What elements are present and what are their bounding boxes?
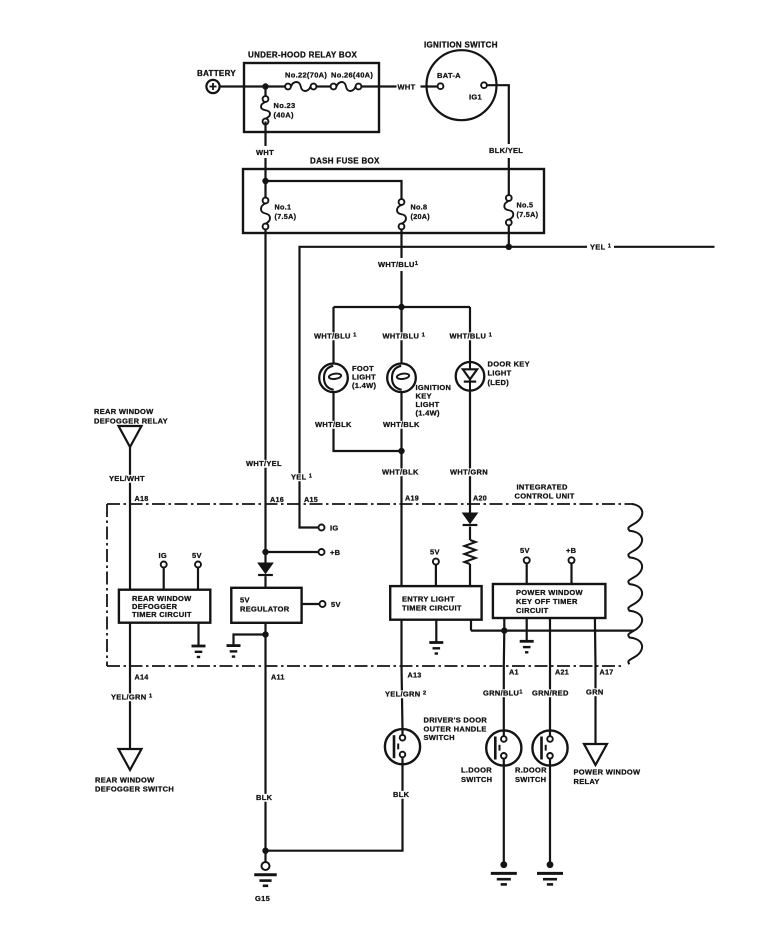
wire +B junction to terminal	[266, 551, 319, 553]
integrated control unit top dashed border	[107, 503, 633, 505]
node ground dot R door	[547, 861, 554, 868]
svg-text:IG1: IG1	[469, 93, 482, 102]
dash fuse box	[243, 169, 544, 233]
wire A14 to defogger switch	[129, 666, 131, 749]
wire junction to regulator ground	[234, 635, 266, 646]
driver's door outer handle switch	[385, 729, 420, 764]
svg-text:A1: A1	[509, 668, 519, 677]
svg-text:WHT/BLU 1: WHT/BLU 1	[450, 332, 493, 341]
svg-text:SWITCH: SWITCH	[424, 733, 455, 742]
wire YEL rail right segment	[614, 246, 715, 248]
wire label WHT/YEL	[244, 460, 281, 468]
ground below power window timer	[520, 640, 534, 643]
svg-text:WHT/BLU 1: WHT/BLU 1	[314, 332, 357, 341]
terminal IG1	[481, 82, 487, 88]
svg-text:BATTERY: BATTERY	[197, 69, 236, 78]
svg-text:WHT: WHT	[256, 148, 274, 157]
node junction battery/fuse No.23	[262, 83, 268, 89]
ground G15	[254, 873, 277, 876]
diode on A20 line	[463, 513, 478, 523]
svg-text:REGULATOR: REGULATOR	[240, 605, 290, 614]
svg-text:No.8: No.8	[411, 203, 428, 212]
node junction A1	[501, 627, 507, 633]
svg-text:POWER WINDOW: POWER WINDOW	[574, 768, 642, 777]
wire WHT to BAT-A terminal	[421, 85, 438, 87]
fuse No.8 (20A)	[399, 199, 405, 205]
wire junction down to fuse No.23	[264, 87, 266, 97]
wire A11 BLK down to G15	[264, 666, 266, 851]
wire WHT/BLK down to A19	[400, 451, 402, 586]
wire WHT from relay box to dash fuse box	[264, 122, 266, 147]
svg-text:WHT/BLK: WHT/BLK	[383, 420, 420, 429]
node junction fuse No.1 / No.8 feed	[262, 178, 268, 184]
svg-text:5V: 5V	[240, 596, 250, 605]
svg-text:R.DOOR: R.DOOR	[515, 766, 547, 775]
wire entry light box stub to bus	[470, 620, 472, 631]
ground below entry light timer	[429, 641, 443, 644]
ignition key light bulb	[387, 364, 416, 393]
integrated control unit bottom dashed border	[107, 665, 623, 667]
svg-text:No.5: No.5	[517, 201, 534, 210]
wire resistor to entry light box	[469, 564, 471, 586]
fuse No.5 (7.5A)	[506, 195, 512, 201]
rear window defogger timer circuit label	[132, 594, 192, 619]
IG terminal circle	[319, 525, 325, 531]
5V regulator label	[240, 596, 290, 614]
wire fuse No.8 down WHT/BLU	[400, 229, 402, 258]
svg-text:CIRCUIT: CIRCUIT	[516, 606, 549, 615]
svg-text:No.1: No.1	[275, 203, 292, 212]
fuse No.1 label	[275, 203, 297, 222]
G15 ground terminal circle	[262, 862, 270, 870]
svg-text:TIMER CIRCUIT: TIMER CIRCUIT	[402, 604, 462, 613]
IG terminal circle (defogger timer)	[161, 562, 167, 568]
left door switch label	[461, 766, 492, 784]
wire 5V terminal to defogger timer box	[197, 568, 199, 590]
wire junction to ground circle	[264, 851, 266, 862]
wire label WHT/GRN	[448, 468, 485, 476]
5V regulator box	[231, 588, 301, 623]
svg-text:(1.4W): (1.4W)	[416, 409, 441, 418]
rear window defogger switch label	[95, 776, 174, 794]
wire R door switch to ground	[549, 766, 551, 865]
wire regulator bottom to A11	[264, 623, 266, 666]
wire label WHT/BLU 1	[376, 261, 417, 269]
svg-text:(40A): (40A)	[274, 111, 294, 120]
svg-text:A11: A11	[271, 673, 285, 682]
wire relay box to ignition switch, WHT	[361, 85, 396, 87]
fuse No.22 (70A)	[285, 84, 291, 90]
ground below 5V regulator	[227, 644, 241, 647]
svg-text:BLK/YEL: BLK/YEL	[489, 146, 523, 155]
svg-text:DEFOGGER RELAY: DEFOGGER RELAY	[94, 417, 168, 426]
integrated control unit wavy right border	[628, 504, 642, 664]
wire 5V terminal to entry light box	[435, 565, 437, 587]
svg-text:No.22(70A): No.22(70A)	[285, 71, 327, 80]
fuse No.23 (40A)	[263, 96, 269, 102]
wire label WHT/BLU 1 (door key light)	[448, 332, 494, 340]
svg-text:REAR WINDOW: REAR WINDOW	[95, 776, 155, 785]
entry light timer circuit label	[402, 595, 462, 613]
wire label YEL 1 (A15 line)	[289, 473, 316, 481]
svg-text:BAT-A: BAT-A	[437, 71, 461, 80]
driver's door outer handle switch label	[424, 716, 488, 743]
svg-text:5V: 5V	[430, 548, 440, 557]
svg-text:(LED): (LED)	[488, 378, 510, 387]
svg-text:(7.5A): (7.5A)	[275, 212, 297, 221]
ignition key light label	[416, 383, 452, 418]
svg-text:A18: A18	[135, 494, 149, 503]
svg-text:GRN/RED: GRN/RED	[532, 689, 569, 698]
svg-text:SWITCH: SWITCH	[461, 775, 492, 784]
wire label WHT	[254, 149, 272, 157]
svg-text:A21: A21	[555, 668, 569, 677]
svg-text:WHT: WHT	[398, 82, 416, 91]
svg-text:A19: A19	[405, 494, 419, 503]
wire power window box to ground	[526, 618, 528, 641]
wire battery to under-hood relay box	[219, 85, 265, 87]
under-hood relay box	[244, 63, 379, 132]
node junction YEL rail	[506, 244, 512, 250]
svg-text:A20: A20	[473, 494, 487, 503]
fuse No.23 label	[274, 101, 296, 120]
wire junction to fuse No.1	[264, 181, 266, 198]
wire +B terminal to power window box	[570, 563, 572, 584]
svg-text:(7.5A): (7.5A)	[517, 210, 539, 219]
ground below R door switch	[537, 872, 563, 875]
5V terminal circle (defogger timer)	[195, 562, 201, 568]
left door switch	[486, 730, 521, 765]
svg-text:GRN/BLU1: GRN/BLU1	[483, 689, 523, 698]
integrated control unit label	[515, 483, 575, 501]
5V terminal circle (entry light)	[433, 559, 439, 565]
wire L door switch to ground	[503, 766, 505, 865]
wire label GRN/RED	[530, 689, 567, 697]
foot light bulb	[319, 364, 348, 393]
wire label GRN	[584, 688, 602, 696]
svg-text:DOOR KEY: DOOR KEY	[488, 360, 530, 369]
door key light label	[488, 360, 530, 388]
svg-text:CONTROL UNIT: CONTROL UNIT	[515, 492, 575, 501]
wire power window box stub to A17	[594, 618, 597, 666]
wire label GRN/BLU 1	[481, 689, 522, 697]
wire YEL rail left segment	[300, 247, 588, 460]
wire label WHT/BLU 1 (foot light)	[312, 332, 358, 340]
ground below L door switch	[491, 872, 517, 875]
node junction G15	[262, 848, 268, 854]
wire fuse No.5 down to YEL rail	[508, 225, 510, 246]
fuse No.26 (40A)	[331, 84, 337, 90]
rear window defogger relay connector triangle	[119, 426, 142, 447]
wire A14 defogger timer box down	[129, 623, 131, 666]
svg-text:LIGHT: LIGHT	[488, 369, 512, 378]
wire BLK/YEL into dash fuse box	[508, 158, 510, 195]
svg-text:UNDER-HOOD RELAY BOX: UNDER-HOOD RELAY BOX	[248, 51, 357, 60]
svg-text:WHT/GRN: WHT/GRN	[450, 468, 488, 477]
svg-text:WHT/BLK: WHT/BLK	[382, 468, 419, 477]
node ground dot L door	[500, 861, 507, 868]
svg-text:RELAY: RELAY	[574, 777, 600, 786]
ignition switch body	[427, 50, 497, 120]
fuse No.1 (7.5A)	[263, 198, 269, 204]
wire A15 to IG terminal	[300, 460, 319, 528]
+B terminal circle	[319, 549, 325, 555]
wire A13 entry light box down	[400, 620, 402, 666]
wire A1 GRN/BLU to L door switch	[503, 666, 505, 730]
fuse No.8 label	[411, 203, 431, 222]
node junction +B	[262, 549, 268, 555]
door key light LED	[456, 362, 485, 391]
resistor	[464, 540, 475, 564]
wire label WHT/BLK (foot light)	[313, 421, 350, 429]
entry light timer circuit box	[390, 586, 481, 620]
power window key off timer circuit label	[516, 588, 584, 615]
svg-text:INTEGRATED: INTEGRATED	[517, 483, 568, 492]
wire entry light box to ground	[435, 620, 437, 643]
wire label YEL/WHT	[107, 475, 144, 483]
rear window defogger timer circuit box	[119, 590, 210, 623]
wire power window box stub to A21	[549, 618, 551, 666]
svg-text:No.26(40A): No.26(40A)	[331, 71, 373, 80]
svg-text:(1.4W): (1.4W)	[352, 381, 377, 390]
wire power window box stub to A1 junction	[503, 618, 505, 631]
+B terminal circle (power window)	[569, 557, 575, 563]
wire defogger timer box to ground	[197, 623, 199, 646]
wire YEL/WHT from relay	[129, 447, 131, 590]
wire 5V terminal to power window box	[526, 563, 528, 584]
wire ignition key light lower	[400, 392, 402, 451]
svg-text:+B: +B	[566, 546, 577, 555]
svg-text:A15: A15	[304, 495, 318, 504]
right door switch label	[515, 766, 547, 784]
svg-text:5V: 5V	[520, 546, 530, 555]
svg-text:+B: +B	[330, 548, 341, 557]
svg-text:WHT/BLU 1: WHT/BLU 1	[383, 332, 426, 341]
5V terminal circle (power window)	[524, 557, 530, 563]
svg-text:A17: A17	[600, 668, 614, 677]
wire label WHT/BLK (ignition key light)	[381, 421, 418, 429]
wire A13 to driver's door switch	[402, 666, 403, 729]
svg-text:DEFOGGER SWITCH: DEFOGGER SWITCH	[95, 785, 174, 794]
power window relay label	[574, 768, 642, 787]
wire label BLK (driver's door)	[391, 791, 409, 799]
wire A1 junction down	[503, 631, 506, 666]
svg-text:WHT/YEL: WHT/YEL	[246, 459, 282, 468]
wire foot light branch upper	[332, 307, 334, 364]
svg-text:KEY OFF TIMER: KEY OFF TIMER	[516, 597, 578, 606]
wire junction to driver's door switch return	[266, 764, 403, 850]
svg-text:(20A): (20A)	[411, 212, 431, 221]
svg-text:A13: A13	[408, 671, 422, 680]
wire A17 GRN to power window relay	[594, 666, 596, 744]
wire door key light lower WHT/GRN	[469, 391, 471, 513]
svg-text:IG: IG	[330, 524, 339, 533]
svg-text:DRIVER'S DOOR: DRIVER'S DOOR	[424, 716, 488, 725]
terminal BAT-A	[438, 83, 444, 89]
svg-text:POWER WINDOW: POWER WINDOW	[516, 588, 584, 597]
rear window defogger switch connector triangle	[119, 749, 142, 770]
svg-text:GRN: GRN	[586, 688, 604, 697]
wire door key light branch upper	[469, 307, 471, 362]
svg-text:DASH FUSE BOX: DASH FUSE BOX	[310, 157, 380, 166]
svg-text:IGNITION SWITCH: IGNITION SWITCH	[424, 41, 498, 50]
svg-text:A14: A14	[135, 673, 149, 682]
wire WHT continue into dash fuse box	[264, 158, 266, 181]
wire internal bus to wavy border	[471, 629, 634, 631]
svg-text:YEL/GRN 1: YEL/GRN 1	[111, 693, 153, 702]
svg-text:YEL/WHT: YEL/WHT	[109, 474, 145, 483]
rear window defogger relay label	[94, 407, 168, 426]
power window relay connector triangle	[584, 744, 607, 765]
wire label WHT/BLU 1 (ignition key light)	[381, 332, 427, 340]
battery B+ terminal	[206, 80, 219, 93]
wire label BLK (A11)	[254, 794, 272, 802]
ground below defogger timer	[192, 645, 206, 648]
power window key off timer circuit box	[493, 584, 606, 618]
wire diode to regulator	[264, 576, 266, 588]
wire label YEL/GRN 2	[383, 690, 429, 698]
svg-text:TIMER CIRCUIT: TIMER CIRCUIT	[132, 610, 192, 619]
fuse No.5 label	[517, 201, 539, 220]
svg-text:BLK: BLK	[393, 790, 410, 799]
svg-text:IG: IG	[159, 551, 168, 560]
lamp bus wire	[334, 306, 471, 308]
node junction lamp bus	[398, 304, 404, 310]
wire label BLK/YEL	[487, 147, 524, 155]
svg-text:WHT/BLK: WHT/BLK	[315, 420, 352, 429]
svg-text:OUTER HANDLE: OUTER HANDLE	[424, 724, 487, 733]
wire foot light lower	[334, 392, 402, 451]
wire IG1 to BLK/YEL drop	[487, 85, 509, 144]
integrated control unit left dashed border	[106, 504, 108, 666]
svg-text:YEL/GRN 2: YEL/GRN 2	[385, 690, 427, 699]
wire inside relay box to fuse No.22	[266, 85, 286, 87]
wire WHT/BLU to lamp bus	[400, 271, 402, 307]
foot light label	[352, 364, 377, 390]
svg-text:L.DOOR: L.DOOR	[461, 766, 492, 775]
svg-text:REAR WINDOW: REAR WINDOW	[94, 407, 154, 416]
svg-text:5V: 5V	[192, 551, 202, 560]
svg-text:5V: 5V	[331, 600, 341, 609]
wire ignition key light branch upper	[400, 307, 402, 364]
node junction regulator ground	[262, 631, 268, 637]
wire A21 GRN/RED to R door switch	[549, 666, 551, 730]
svg-text:SWITCH: SWITCH	[515, 775, 546, 784]
wire between fuse No.22 and No.26	[316, 85, 330, 87]
wire junction to fuse No.8	[266, 181, 402, 199]
svg-text:ENTRY LIGHT: ENTRY LIGHT	[402, 595, 455, 604]
wire label YEL/GRN 1	[109, 693, 155, 701]
wire WHT/YEL fuse No.1 to regulator	[264, 229, 266, 563]
wire regulator to 5V terminal	[302, 603, 320, 605]
node junction WHT/BLK	[398, 448, 404, 454]
wire diode to resistor	[469, 527, 471, 540]
svg-text:G15: G15	[255, 894, 270, 903]
svg-text:No.23: No.23	[274, 101, 296, 110]
wire label WHT/BLK (A19)	[380, 468, 417, 476]
right door switch	[532, 730, 567, 765]
svg-text:A16: A16	[270, 495, 284, 504]
5V output terminal circle	[320, 601, 326, 607]
diode above 5V regulator	[258, 563, 273, 573]
svg-text:BLK: BLK	[256, 793, 273, 802]
svg-text:WHT/BLU1: WHT/BLU1	[378, 260, 419, 269]
wire IG terminal to defogger timer box	[163, 568, 165, 590]
